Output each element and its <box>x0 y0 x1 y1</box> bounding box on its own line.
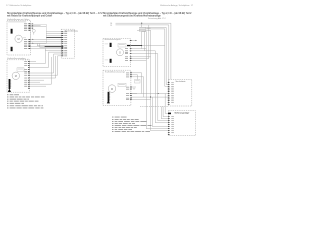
wire E1 pin row 2 to X1 <box>31 40 62 42</box>
U1 internal sub box <box>118 43 126 47</box>
U1 pin ticks <box>130 47 132 50</box>
generator G2 symbol in U1 <box>117 49 124 56</box>
ground symbol GND1 <box>132 86 136 88</box>
wire U1 pin 1 <box>131 48 147 50</box>
wire E3 top pin 2 to plug <box>131 75 138 80</box>
E2 pin ticks right edge <box>28 60 30 63</box>
legend list right page <box>112 116 114 119</box>
wire K1 output c <box>46 35 61 37</box>
bold wire E1 to X1 <box>31 46 45 48</box>
wire E3 top pin 3 <box>131 77 144 97</box>
bus 15 branch drop <box>148 25 150 59</box>
resistor bar R2 in E1 <box>11 47 13 51</box>
wire drop to X3 bold pin <box>165 94 168 114</box>
E2 top edge connector ticks <box>22 59 24 61</box>
wire E3 stub 93.5 <box>131 93 137 95</box>
connector X1 (dashed terminal strip box) <box>61 29 74 58</box>
wire E1 pin row 1 to X1 <box>31 38 62 40</box>
relay K1 coil symbol <box>32 29 35 32</box>
wires E1 upper pins to relay K1 <box>30 23 32 25</box>
E1 internal title line <box>8 20 26 23</box>
wire X1 down-left to E2 pin a <box>30 48 62 63</box>
fuse F1 label <box>147 27 151 30</box>
motor M3 (gauge motor) <box>108 85 116 93</box>
E3 pin labels <box>126 72 129 75</box>
wire corner net a <box>140 27 168 84</box>
U1 pin labels <box>125 47 128 50</box>
svg-text:15: 15 <box>110 25 112 27</box>
connector X3 pin ticks <box>168 115 170 118</box>
wire corner net c <box>137 30 151 97</box>
wire U1 net to X3 pin 3 <box>158 54 168 121</box>
bold wire U1 supply <box>131 45 142 47</box>
wire net d vertical <box>142 31 147 33</box>
component box E3 (dashed enclosure) <box>103 70 131 105</box>
bus line 30 <box>122 23 171 79</box>
wire net to X3 pin 5 <box>146 32 168 129</box>
motor M2 (sender motor) <box>12 72 19 79</box>
E1 pin labels upper <box>24 23 27 26</box>
fuel gauge bar G1 <box>9 79 11 89</box>
bold supply wire K1 to X1 <box>46 36 61 38</box>
wire E1 pin row 5 to X1 <box>31 47 62 49</box>
fuse F1 lead <box>141 23 143 27</box>
wire E3 mid pin to ground <box>131 86 132 88</box>
wire K1 bottom drop 2 <box>40 44 62 48</box>
wire E2 lower mesh 3 <box>30 81 40 83</box>
wire E2 lower mesh 4 <box>30 57 52 84</box>
junction dot fuse output <box>141 45 142 46</box>
relay K1 title <box>32 24 41 27</box>
wire X1 down-left to E2 pin c <box>30 54 62 73</box>
wire E2 top pin stub <box>30 61 36 63</box>
component box E2 (dashed enclosure, sender unit) <box>7 60 30 92</box>
connector X3 (dashed terminal box) <box>168 111 195 136</box>
gauge G3 triangle <box>107 100 110 103</box>
connector X1 pin ticks <box>61 30 63 33</box>
gauge G1 tick marks <box>9 80 12 82</box>
wire U1 net to X3 pin 4 <box>155 51 168 123</box>
relay K1 box (fuel pump relay) <box>31 24 47 43</box>
wire E1 pin row 3 to X1 <box>31 42 62 44</box>
wire X1 down-left to E2 pin b <box>30 52 62 67</box>
connector X3 pin labels <box>171 115 174 118</box>
svg-text:M: M <box>15 74 17 78</box>
wire drop to X3 pin 1 <box>163 106 168 116</box>
bus line 15 <box>122 25 169 84</box>
two-page manual spread with wiring diagrams <box>0 0 200 142</box>
U1 extra top pin wire <box>131 40 136 42</box>
long wire E3 to X2 lower <box>131 96 168 98</box>
wire E2 lower mesh 5 <box>30 85 46 87</box>
junction dot on bus 30 <box>141 23 142 24</box>
motor M1 (pump motor) <box>15 35 22 42</box>
wire K1 bottom drop 1 <box>37 44 61 46</box>
connector X2 pin labels <box>171 81 174 84</box>
wire U1 pin 6 <box>131 59 147 61</box>
junction dot net 98 <box>150 97 151 98</box>
E3 internal small box <box>118 83 126 86</box>
wire E3 stub 99.5 <box>131 99 151 101</box>
wire U1 pin 4 <box>131 56 151 58</box>
fuse F1 box <box>139 27 145 31</box>
relay K1 title underline <box>31 26 47 28</box>
E1 pin ticks upper <box>28 22 30 25</box>
wire U1 pin 2 <box>131 50 156 52</box>
U1 bold output pad <box>127 45 130 46</box>
resistor bar 2 in U1 <box>110 59 112 63</box>
resistor bar R1 in E1 <box>11 29 13 34</box>
U1 internal left labels <box>105 43 108 46</box>
motor M1 terminal label <box>23 36 26 39</box>
dashed boundary segment below X2 <box>140 105 169 107</box>
wire corner net b <box>140 29 168 86</box>
wire U1 pin 3 <box>131 53 158 55</box>
connector X2 pin ticks <box>168 81 170 84</box>
fuse secondary lead <box>144 31 146 50</box>
wire drop to X3 pin 2 <box>161 106 168 118</box>
wire E2 lower mesh 1 <box>30 56 56 78</box>
junction dot net 95 <box>157 93 158 94</box>
E2 internal small box <box>17 68 24 71</box>
wire net to X3 pin 8 <box>151 97 168 131</box>
E1 pin labels lower <box>24 38 27 41</box>
wire E3 top pin 1 <box>131 73 142 94</box>
legend list left page <box>7 93 9 96</box>
resistor bar in U1 <box>110 43 112 47</box>
wire U1 pin 5 <box>131 58 149 60</box>
connector X2 (dashed terminal box) <box>169 79 192 106</box>
component box U1 (dashed enclosure) <box>103 39 131 67</box>
wire K1 output a <box>46 31 61 33</box>
component box E1 (dashed enclosure, fuel pump unit) <box>7 20 31 55</box>
E2 pin labels <box>24 60 27 63</box>
wire K1 output b <box>46 33 61 35</box>
fuse F1 output lead <box>141 31 143 48</box>
wire E2 lower mesh 2 <box>30 79 44 81</box>
fuel gauge bar G3 <box>108 92 110 102</box>
connector X3 bold pin <box>168 113 171 115</box>
wire X1 down-left to E2 pin d <box>30 56 62 75</box>
svg-text:G: G <box>119 52 121 55</box>
gauge G1 triangle <box>8 89 11 92</box>
wire net to X3 pin 6 <box>153 97 168 127</box>
svg-text:M: M <box>18 37 20 41</box>
E3 pin ticks right edge <box>130 71 132 74</box>
plug P1 small box <box>135 80 141 84</box>
long wire E3 to X2 upper <box>131 93 168 95</box>
gauge G3 tick marks <box>108 92 111 94</box>
connector X1 pin labels <box>64 31 67 34</box>
E1 pin ticks lower <box>28 38 30 41</box>
svg-text:M: M <box>111 87 113 91</box>
bus stub lines <box>116 22 123 24</box>
